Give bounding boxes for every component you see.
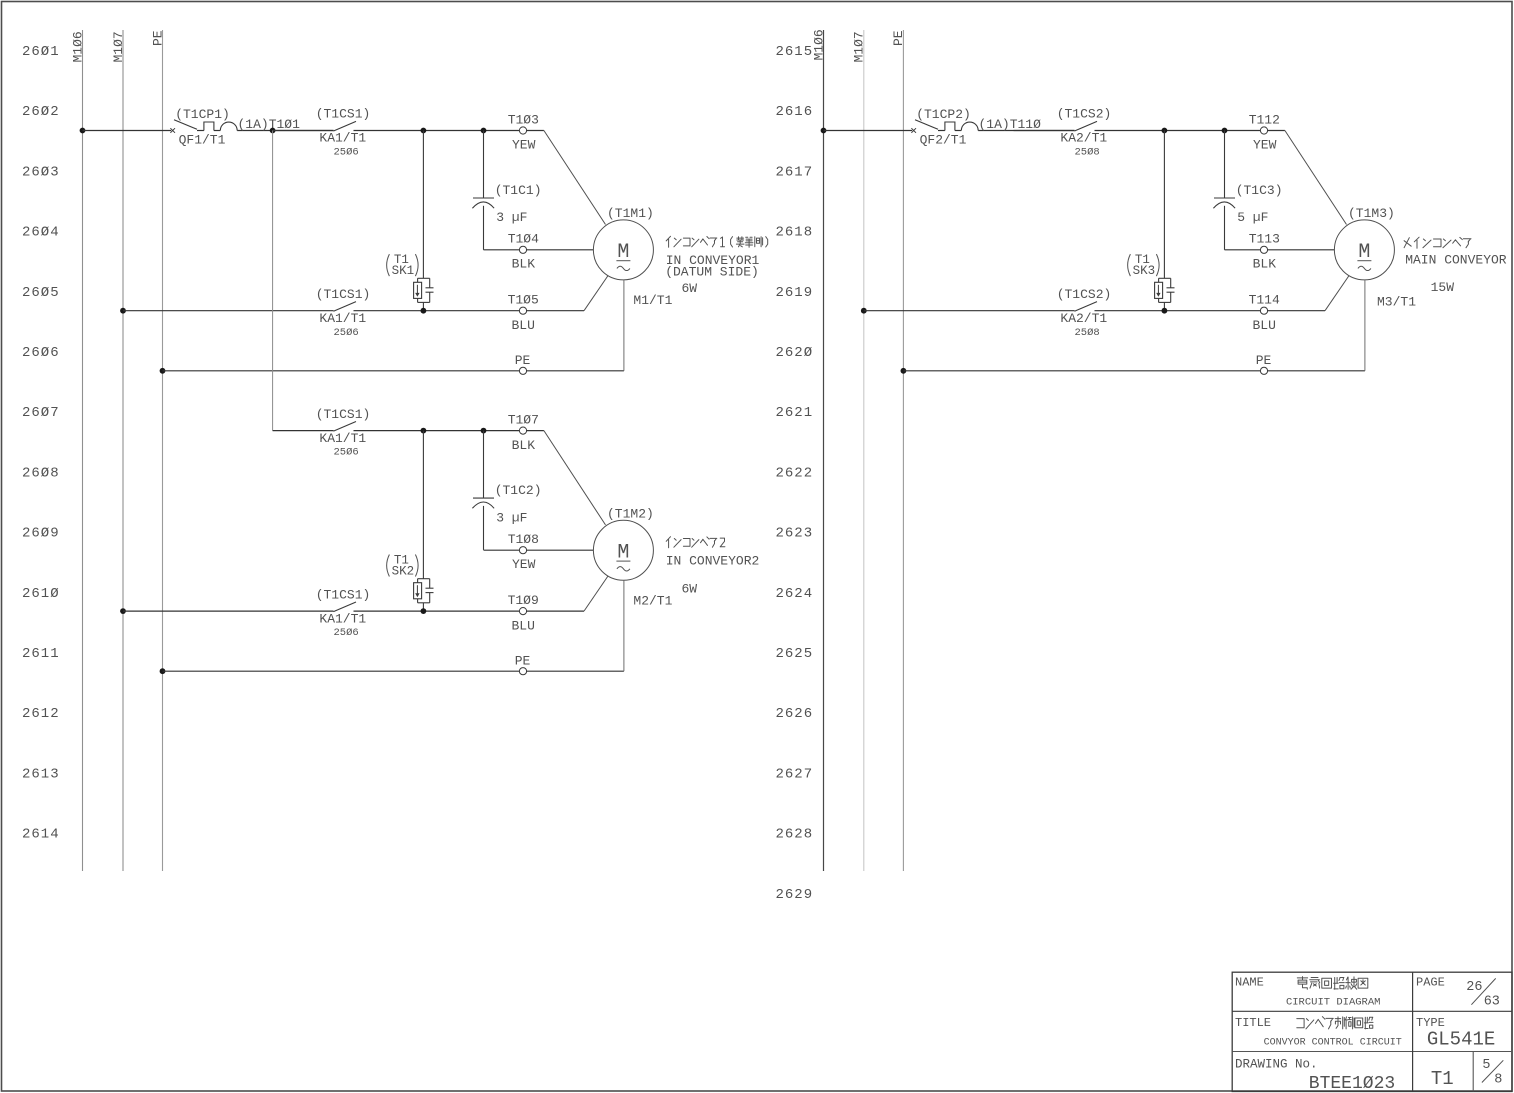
svg-text:TITLE: TITLE (1235, 1016, 1271, 1030)
node M107 junction row 2619 (861, 308, 867, 314)
svg-text:(T1M1): (T1M1) (607, 206, 654, 221)
wire contact to T114 (1095, 310, 1261, 312)
svg-text:KA1/T1: KA1/T1 (319, 611, 366, 626)
svg-text:T1Ø7: T1Ø7 (508, 412, 539, 427)
wire T109 to motor2 (BLU) (526, 610, 584, 612)
label conveyor2 japanese (666, 537, 725, 548)
wire row 2606 PE (163, 370, 520, 372)
svg-text:2611: 2611 (22, 646, 60, 662)
label (T1 SK1) (387, 254, 390, 276)
wire PE to motor M1 (526, 370, 624, 372)
wire row 2610 from M107 (123, 610, 334, 612)
svg-text:25Ø8: 25Ø8 (1074, 327, 1099, 339)
wire T108 to motor2 (YEW) (526, 549, 593, 551)
svg-text:M2/T1: M2/T1 (633, 593, 672, 608)
capacitor T1C1 3 µF (472, 131, 541, 250)
svg-text:M1Ø7: M1Ø7 (111, 31, 126, 62)
svg-text:26: 26 (1466, 980, 1482, 995)
svg-text:KA1/T1: KA1/T1 (319, 131, 366, 146)
svg-text:PE: PE (891, 30, 906, 46)
svg-text:PE: PE (515, 353, 531, 368)
svg-text:M1Ø7: M1Ø7 (852, 31, 867, 62)
motor T1M3 (1334, 206, 1394, 280)
svg-text:(T1M2): (T1M2) (607, 507, 654, 522)
svg-text:25Ø6: 25Ø6 (333, 327, 358, 339)
node row2605 SK1 bottom (421, 308, 427, 314)
svg-text:261Ø: 261Ø (22, 586, 60, 602)
svg-text:CIRCUIT DIAGRAM: CIRCUIT DIAGRAM (1286, 997, 1381, 1009)
svg-text:KA2/T1: KA2/T1 (1060, 131, 1107, 146)
svg-text:BLK: BLK (512, 257, 536, 272)
svg-text:8: 8 (1494, 1072, 1502, 1087)
node M106 junction row 2616 (821, 128, 827, 134)
svg-text:PAGE: PAGE (1416, 975, 1445, 989)
svg-text:25Ø8: 25Ø8 (1074, 147, 1099, 159)
node M106 junction row 2602 (80, 128, 86, 134)
wire T107 to motor2 (BLK) (526, 430, 544, 432)
svg-text:2624: 2624 (776, 586, 814, 602)
breaker QF1/T1 (T1CP1) (170, 107, 237, 148)
node row2602 branch SK1 (421, 128, 427, 134)
terminal T112 (1249, 112, 1280, 152)
svg-text:26Ø8: 26Ø8 (22, 465, 60, 481)
node M107 junction row 2610 (120, 608, 126, 614)
svg-text:SK2: SK2 (392, 565, 415, 579)
node row2607 branch SK2 (421, 428, 427, 434)
svg-text:(1A)T11Ø: (1A)T11Ø (978, 117, 1041, 132)
terminal T108 (508, 532, 539, 572)
svg-text:(T1CP2): (T1CP2) (916, 107, 971, 122)
wire row 2611 PE (163, 670, 520, 672)
capacitor T1C3 5 µF (1213, 131, 1282, 250)
svg-text:(T1CS2): (T1CS2) (1057, 107, 1112, 122)
svg-text:SK3: SK3 (1133, 264, 1156, 278)
svg-text:PE: PE (515, 653, 531, 668)
svg-text:2623: 2623 (776, 526, 814, 542)
svg-text:2618: 2618 (776, 225, 814, 241)
node T101 (270, 128, 276, 134)
node PE junction row 2606 (160, 368, 166, 374)
svg-text:T1Ø4: T1Ø4 (508, 232, 539, 247)
svg-text:(T1CS1): (T1CS1) (316, 407, 371, 422)
svg-text:(T1C1): (T1C1) (495, 183, 542, 198)
svg-text:5: 5 (1482, 1058, 1490, 1073)
wire node to protector SK3 (1163, 131, 1165, 279)
wire T101 to contact (273, 130, 334, 132)
svg-text:(1A)T1Ø1: (1A)T1Ø1 (237, 117, 300, 132)
svg-text:(DATUM SIDE): (DATUM SIDE) (665, 265, 759, 280)
node row2616 branch C3 (1222, 128, 1228, 134)
net line-number column right (2615-2629) (776, 44, 814, 903)
wire breaker to node T110 (978, 130, 1074, 132)
svg-text:26Ø5: 26Ø5 (22, 285, 60, 301)
svg-text:2612: 2612 (22, 706, 60, 722)
motor T1M2 (593, 507, 653, 581)
svg-text:2626: 2626 (776, 706, 814, 722)
wire T105 to motor (BLU) (526, 310, 584, 312)
contact KA2/T1 (T1CS2) (1057, 107, 1112, 159)
title block table (1232, 972, 1512, 1091)
contact KA1/T1 (T1CS1) (316, 107, 371, 159)
wire row feed from bus to breaker (824, 130, 913, 132)
svg-text:T1Ø8: T1Ø8 (508, 532, 539, 547)
node row2610 SK2 bottom (421, 608, 427, 614)
thermal protector SK2 (T1) (387, 553, 434, 611)
breaker QF2/T1 (T1CP2) (911, 107, 978, 148)
svg-text:25Ø6: 25Ø6 (333, 627, 358, 639)
svg-text:2616: 2616 (776, 104, 814, 120)
svg-text:(T1C3): (T1C3) (1236, 183, 1283, 198)
svg-text:BLU: BLU (511, 618, 534, 633)
svg-text:M1/T1: M1/T1 (633, 293, 672, 308)
terminal PE row 2620 (1256, 353, 1272, 374)
svg-text:6W: 6W (681, 281, 697, 296)
svg-text:25Ø6: 25Ø6 (333, 447, 358, 459)
bus PE left (150, 30, 165, 871)
terminal T107 (508, 412, 539, 452)
wire row 2619 from M107 (864, 310, 1075, 312)
label conveyor1 japanese (666, 236, 768, 247)
label (T1 SK3) (1128, 254, 1131, 276)
wire row 2607 (273, 430, 334, 432)
svg-text:T1Ø9: T1Ø9 (508, 593, 539, 608)
svg-text:T1Ø5: T1Ø5 (508, 293, 539, 308)
label page fraction 26/63 (1466, 978, 1500, 1009)
contact KA1/T1 (T1CS1) (316, 287, 371, 339)
node row2619 SK3 bottom (1162, 308, 1168, 314)
svg-text:(T1CS1): (T1CS1) (316, 587, 371, 602)
svg-text:(T1CS1): (T1CS1) (316, 107, 371, 122)
svg-text:DRAWING No.: DRAWING No. (1235, 1057, 1318, 1071)
svg-text:(T1CS2): (T1CS2) (1057, 287, 1112, 302)
svg-text:MAIN CONVEYOR: MAIN CONVEYOR (1405, 252, 1507, 267)
svg-text:T1: T1 (1431, 1068, 1454, 1090)
terminal T114 (1249, 293, 1280, 333)
svg-text:(T1M3): (T1M3) (1348, 206, 1395, 221)
svg-text:CONVYOR CONTROL CIRCUIT: CONVYOR CONTROL CIRCUIT (1264, 1038, 1402, 1049)
wire row feed from bus to breaker (83, 130, 172, 132)
terminal PE row 2606 (515, 353, 531, 374)
node row2607 branch C2 (481, 428, 487, 434)
terminal T104 (508, 232, 539, 272)
bus M107 right (852, 30, 867, 871)
net line-number column left (2601-2614) (22, 44, 60, 843)
svg-text:25Ø6: 25Ø6 (333, 147, 358, 159)
wire T110 to contact (1014, 130, 1075, 132)
svg-text:KA1/T1: KA1/T1 (319, 311, 366, 326)
wire contact to T107 (354, 430, 520, 432)
svg-text:T113: T113 (1249, 232, 1280, 247)
wire contact to T112 (1095, 130, 1261, 132)
wire contact to T105 (354, 310, 520, 312)
svg-text:KA2/T1: KA2/T1 (1060, 311, 1107, 326)
svg-text:M3/T1: M3/T1 (1377, 295, 1416, 310)
svg-text:BLU: BLU (1252, 318, 1275, 333)
label main conveyor japanese (1404, 237, 1471, 248)
svg-text:IN CONVEYOR2: IN CONVEYOR2 (666, 554, 760, 569)
thermal protector SK1 (T1) (387, 253, 434, 311)
svg-text:5 µF: 5 µF (1237, 210, 1268, 225)
svg-text:2625: 2625 (776, 646, 814, 662)
svg-text:T1Ø3: T1Ø3 (508, 112, 539, 127)
terminal PE row 2611 (515, 653, 531, 674)
bus M107 left (111, 30, 126, 871)
svg-text:T112: T112 (1249, 112, 1280, 127)
svg-text:26Ø9: 26Ø9 (22, 526, 60, 542)
terminal T103 (508, 112, 539, 152)
svg-text:26Ø1: 26Ø1 (22, 44, 60, 60)
motor T1M1 (593, 206, 653, 280)
wire C2 to T108 (484, 549, 520, 551)
svg-text:BLU: BLU (511, 318, 534, 333)
bus M106 left (70, 30, 85, 871)
svg-text:26Ø2: 26Ø2 (22, 104, 60, 120)
wire node to protector SK1 (422, 131, 424, 279)
wire node to protector SK2 (422, 431, 424, 579)
wire T113 to motor3 (BLK) (1267, 249, 1334, 251)
wire PE to motor M2 (526, 670, 624, 672)
svg-text:262Ø: 262Ø (776, 345, 814, 361)
terminal T105 (508, 293, 539, 333)
svg-text:6W: 6W (681, 581, 697, 596)
wire row 2620 PE (903, 370, 1260, 372)
svg-text:2628: 2628 (776, 827, 814, 843)
label name japanese (circuit diagram) (1297, 977, 1368, 990)
svg-text:NAME: NAME (1235, 975, 1264, 989)
svg-text:BLK: BLK (512, 438, 536, 453)
contact KA1/T1 (T1CS1) (316, 407, 371, 459)
wire contact to T109 (354, 610, 520, 612)
svg-text:YEW: YEW (512, 138, 536, 153)
terminal T109 (508, 593, 539, 633)
wire T104 to motor (BLK) (526, 249, 593, 251)
svg-text:M1Ø6: M1Ø6 (70, 31, 85, 62)
svg-text:2622: 2622 (776, 465, 814, 481)
svg-text:BLK: BLK (1253, 257, 1277, 272)
node row2602 branch C1 (481, 128, 487, 134)
label sheet fraction 5/8 (1482, 1058, 1503, 1088)
svg-text:3 µF: 3 µF (496, 210, 527, 225)
svg-text:SK1: SK1 (392, 264, 415, 278)
capacitor T1C2 3 µF (472, 431, 541, 550)
wire contact to T103 (354, 130, 520, 132)
svg-text:2613: 2613 (22, 766, 60, 782)
wire C3 to T113 (1225, 249, 1261, 251)
wire T114 to motor3 (BLU) (1267, 310, 1325, 312)
svg-text:3 µF: 3 µF (496, 510, 527, 525)
label (T1 SK2) (387, 555, 390, 577)
contact KA1/T1 (T1CS1) (316, 587, 371, 639)
node M107 junction row 2605 (120, 308, 126, 314)
svg-text:(T1C2): (T1C2) (495, 483, 542, 498)
node PE junction row 2611 (160, 668, 166, 674)
svg-text:2621: 2621 (776, 405, 814, 421)
svg-text:26Ø7: 26Ø7 (22, 405, 60, 421)
svg-text:QF2/T1: QF2/T1 (920, 133, 967, 148)
wire PE to motor M3 (1267, 370, 1365, 372)
svg-text:26Ø4: 26Ø4 (22, 225, 60, 241)
svg-text:15W: 15W (1431, 280, 1455, 295)
svg-text:26Ø6: 26Ø6 (22, 345, 60, 361)
wire T112 to motor3 (YEW) (1267, 130, 1285, 132)
svg-text:GL541E: GL541E (1427, 1028, 1495, 1050)
wire row 2605 from M107 (123, 310, 334, 312)
bus PE right (891, 30, 906, 871)
svg-text:2615: 2615 (776, 44, 814, 60)
svg-text:63: 63 (1484, 994, 1500, 1009)
svg-text:YEW: YEW (1253, 138, 1277, 153)
wire branch T101 down to row 2607 (272, 131, 274, 431)
svg-text:2614: 2614 (22, 827, 60, 843)
wire T103 to motor (YEW) (526, 130, 544, 132)
svg-text:BTEE1Ø23: BTEE1Ø23 (1309, 1074, 1395, 1093)
svg-text:QF1/T1: QF1/T1 (179, 133, 226, 148)
svg-text:2627: 2627 (776, 766, 814, 782)
node PE junction row 2620 (901, 368, 907, 374)
bus M106 right (811, 29, 826, 871)
svg-text:26Ø3: 26Ø3 (22, 164, 60, 180)
svg-text:(T1CS1): (T1CS1) (316, 287, 371, 302)
wire C1 to T104 (484, 249, 520, 251)
node row2616 branch SK3 (1162, 128, 1168, 134)
svg-text:T114: T114 (1249, 293, 1280, 308)
svg-text:PE: PE (150, 30, 165, 46)
label title japanese (conveyor control circuit) (1297, 1017, 1373, 1029)
svg-text:PE: PE (1256, 353, 1272, 368)
svg-text:2619: 2619 (776, 285, 814, 301)
svg-text:KA1/T1: KA1/T1 (319, 431, 366, 446)
svg-text:2629: 2629 (776, 887, 814, 903)
wire breaker to node T101 (237, 130, 333, 132)
svg-text:YEW: YEW (512, 557, 536, 572)
thermal protector SK3 (T1) (1128, 253, 1175, 311)
svg-text:(T1CP1): (T1CP1) (175, 107, 230, 122)
svg-text:2617: 2617 (776, 164, 814, 180)
terminal T113 (1249, 232, 1280, 272)
contact KA2/T1 (T1CS2) (1057, 287, 1112, 339)
svg-text:M1Ø6: M1Ø6 (811, 29, 826, 60)
